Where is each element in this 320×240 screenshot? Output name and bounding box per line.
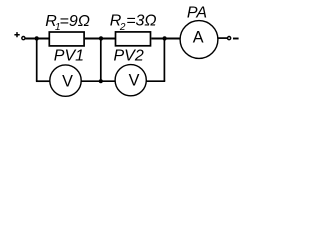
wire R1 to R2 (85, 38, 116, 40)
wire R2 to ammeter (151, 38, 180, 40)
wire PV1 left horizontal (36, 80, 50, 82)
wire PV2 right horizontal (146, 80, 165, 82)
svg-text:PV2: PV2 (114, 48, 144, 65)
svg-text:V: V (62, 72, 73, 90)
svg-text:V: V (129, 71, 140, 89)
junction node 2 (99, 36, 103, 40)
junction node 4 (bottom) (99, 79, 103, 83)
voltmeter PV1 (50, 65, 81, 96)
resistor R2 (116, 32, 151, 46)
wire node2 down to bottom rail (100, 39, 102, 82)
svg-text:A: A (193, 29, 204, 47)
voltmeter PV2 (115, 65, 146, 96)
right terminal (228, 37, 231, 40)
wire node3 down to PV2 (163, 39, 165, 82)
plus terminal label (14, 32, 19, 37)
resistor R1 (49, 32, 84, 46)
junction node 1 (35, 36, 39, 40)
wire left terminal to R1 (25, 38, 48, 40)
wire bottom rail PV1 to PV2 (81, 80, 116, 82)
left terminal (22, 37, 25, 40)
ammeter PA (180, 21, 218, 59)
wire node1 down to PV1 (36, 39, 38, 82)
svg-text:PV1: PV1 (54, 48, 84, 65)
junction node 3 (162, 36, 166, 40)
wire ammeter to right terminal (218, 37, 228, 39)
svg-text:PA: PA (187, 5, 207, 22)
minus terminal label (233, 38, 239, 40)
